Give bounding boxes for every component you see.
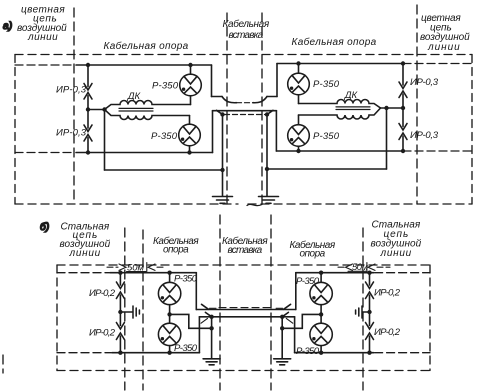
node line B at left tube column bbox=[167, 351, 171, 355]
ground symbol left (cable insert) bbox=[213, 197, 233, 204]
wire: steel line A right overhead (dashed) bbox=[375, 272, 430, 274]
svg-text:50м: 50м bbox=[127, 263, 144, 274]
cable entry mark right, crossing A bbox=[284, 304, 291, 309]
dimension 50m right bbox=[338, 263, 390, 272]
spark gap FV1 IR-0,3 upper left bbox=[84, 65, 92, 110]
node: staircase joins left earth lead bbox=[209, 326, 213, 330]
svg-text:ИР-0,3: ИР-0,3 bbox=[410, 77, 439, 88]
node on line A at tube V1 bbox=[188, 63, 192, 67]
drainage coil DK left, lower winding bbox=[105, 110, 190, 120]
drainage coil DK right, core bbox=[336, 106, 370, 108]
svg-text:опора: опора bbox=[163, 245, 189, 256]
node: middle of left spark column bbox=[86, 107, 90, 111]
node line B at right spark gap bbox=[367, 351, 371, 355]
label: cable support (bottom left) bbox=[153, 235, 199, 256]
node on line B right at spark gap bbox=[401, 149, 405, 153]
zone boundary dashed frame, section b bbox=[57, 265, 430, 371]
ground symbol bottom right bbox=[274, 359, 291, 365]
spark gap FV5 IR-0,2 upper left bbox=[116, 273, 124, 312]
svg-text:линии: линии bbox=[427, 42, 460, 53]
svg-text:линии: линии bbox=[69, 248, 101, 259]
drainage coil DK left, upper winding bbox=[105, 101, 191, 110]
ground symbol right (cable insert) bbox=[259, 197, 279, 204]
label: cable insert (bottom centre) bbox=[222, 235, 268, 256]
zone boundary vertical x=417 bbox=[416, 5, 418, 204]
spark gap FV6 IR-0,2 lower left bbox=[116, 312, 124, 353]
stray frame dashes bottom-left bbox=[2, 355, 4, 373]
wire: earth bus right y=169 bbox=[267, 168, 387, 170]
wire: bottom-left box edge A bbox=[195, 273, 197, 310]
wire: spark node to choke fork bbox=[88, 109, 105, 111]
wire: earth bus left y=170 bbox=[105, 169, 223, 171]
svg-text:Р-350: Р-350 bbox=[174, 343, 198, 354]
spark gap FV2 IR-0,3 lower left bbox=[84, 110, 92, 153]
wire: choke midpoint drop left bbox=[104, 110, 106, 171]
wire: line B left solid bbox=[76, 152, 213, 154]
wire: right choke fork to spark node bbox=[381, 107, 404, 109]
svg-text:ИР-0,3: ИР-0,3 bbox=[410, 130, 439, 141]
svg-text:Р-350: Р-350 bbox=[151, 131, 178, 142]
wire: left cable box edge B bbox=[212, 111, 214, 153]
wire: choke midpoint drop right bbox=[386, 108, 388, 169]
wire: earth lead right x=267 bbox=[266, 115, 268, 197]
node: earth bus joins left lead bbox=[220, 168, 224, 172]
wire: line B left overhead (dashed) bbox=[15, 152, 75, 154]
node line A at left spark gap bbox=[118, 271, 122, 275]
node: sheath left bottom bbox=[209, 315, 213, 319]
cable core dashed, crossing A bottom bbox=[219, 307, 273, 309]
svg-text:Р-350: Р-350 bbox=[313, 131, 340, 142]
cable entry mark right, crossing B bbox=[286, 318, 293, 323]
discharge tube V3 R-350 upper right bbox=[288, 64, 310, 104]
wire: earth lead left x=222.5 bbox=[222, 115, 224, 197]
wire: line A left solid bbox=[76, 64, 212, 66]
svg-text:Р-350: Р-350 bbox=[296, 276, 320, 287]
svg-text:линии: линии bbox=[380, 248, 412, 259]
svg-text:вставка: вставка bbox=[228, 245, 263, 256]
node line B at left spark gap bbox=[118, 351, 122, 355]
zone boundary vertical x=124.8 bbox=[124, 228, 126, 390]
node on line B at spark gap bbox=[86, 150, 90, 154]
svg-text:ИР-0,3: ИР-0,3 bbox=[56, 128, 87, 139]
earth (rotated) at bottom-right spark node bbox=[356, 306, 370, 318]
drainage coil DK right, lower winding bbox=[299, 108, 381, 119]
wire: steel line B right solid bbox=[295, 352, 374, 354]
node: choke midpoint fork bbox=[102, 107, 106, 111]
wire: steel line A left overhead (dashed) bbox=[57, 272, 109, 274]
svg-text:вставка: вставка bbox=[229, 30, 264, 41]
svg-text:а): а) bbox=[3, 21, 13, 32]
zone boundary dashed frame, section a bbox=[15, 55, 472, 205]
label: cable insert (top centre) bbox=[223, 18, 270, 41]
wire: crossing B bottom section bbox=[199, 316, 294, 318]
svg-text:Р-350: Р-350 bbox=[152, 81, 179, 92]
wire: earth lead bottom right bbox=[281, 317, 283, 358]
spark gap FV4 IR-0,3 lower right bbox=[399, 108, 407, 151]
spark gap FV3 IR-0,3 upper right bbox=[399, 64, 407, 109]
node: earth bus joins right lead bbox=[265, 167, 269, 171]
wire: line B right solid bbox=[276, 150, 403, 152]
wire: bottom-right box edge A bbox=[295, 273, 297, 310]
zone boundary vertical x=143 bbox=[142, 230, 144, 390]
zone boundary vertical x=227 bbox=[226, 13, 228, 204]
svg-text:Кабельная опора: Кабельная опора bbox=[292, 36, 377, 48]
wire: steel line A right solid bbox=[296, 272, 374, 274]
node: sheath right bottom bbox=[280, 315, 284, 319]
discharge tube V8 R-350 lower, bottom-right block bbox=[310, 323, 332, 353]
node on line A right at tube V3 bbox=[296, 61, 300, 65]
wire: earth lead bottom left bbox=[211, 317, 213, 358]
wire: steel line B left overhead (dashed) bbox=[57, 352, 111, 354]
svg-text:Р-350: Р-350 bbox=[174, 274, 198, 285]
wire: tube midpoint to earth, right staircase bbox=[282, 314, 321, 328]
node on line B at tube V2 bbox=[187, 150, 191, 154]
dimension 50m left bbox=[107, 263, 166, 272]
svg-text:Кабельная: Кабельная bbox=[223, 18, 270, 30]
ground symbol bottom left bbox=[203, 359, 220, 365]
label: steel circuit of overhead line (left) bbox=[60, 222, 111, 260]
node between tubes, bottom-right bbox=[319, 312, 323, 316]
svg-text:ИР-0,2: ИР-0,2 bbox=[374, 327, 401, 338]
node line A at left tube column bbox=[167, 271, 171, 275]
node: sheath right bbox=[265, 112, 269, 116]
label: coloured circuit of overhead line (right) bbox=[420, 13, 470, 53]
sheath bond tick right bottom bbox=[282, 312, 288, 316]
zone boundary vertical x=220 bbox=[219, 215, 221, 390]
sheath bond tick left bbox=[217, 110, 223, 114]
svg-text:Р-350: Р-350 bbox=[296, 346, 320, 357]
cable entry arc right on crossing A bbox=[253, 97, 267, 103]
cable entry mark left, crossing B bbox=[201, 318, 208, 323]
node on line A at spark gap bbox=[86, 63, 90, 67]
earth (rotated) at bottom-left spark node bbox=[120, 306, 139, 318]
wire: steel line A left solid bbox=[110, 272, 196, 274]
wire: line A right solid bbox=[277, 63, 403, 65]
svg-text:ИР-0,2: ИР-0,2 bbox=[89, 288, 116, 299]
zone boundary vertical x=271 bbox=[270, 215, 272, 390]
cable entry arc left on crossing A bbox=[222, 97, 237, 103]
spark gap FV7 IR-0,2 upper right bbox=[366, 273, 374, 312]
svg-text:Кабельная опора: Кабельная опора bbox=[104, 40, 189, 52]
node: middle of bottom-right spark column bbox=[367, 310, 371, 314]
svg-text:ДК: ДК bbox=[127, 91, 142, 102]
svg-text:ИР-0,2: ИР-0,2 bbox=[89, 328, 116, 339]
node between tubes, bottom-left bbox=[167, 312, 171, 316]
cable core dashed, crossing A bbox=[237, 102, 254, 104]
node: staircase joins right earth lead bbox=[280, 326, 284, 330]
node: middle of right spark column bbox=[401, 106, 405, 110]
wire: right cable box edge B bbox=[275, 111, 277, 151]
discharge tube V1 R-350 upper left bbox=[180, 65, 202, 105]
wire: steel line B left solid bbox=[112, 352, 199, 354]
wire: line B rise right bbox=[294, 317, 296, 353]
zone boundary vertical x=363 bbox=[362, 228, 364, 390]
wire: right cable box edge A bbox=[276, 64, 278, 97]
wire: line B right overhead (dashed) bbox=[403, 150, 471, 152]
cable entry mark left, crossing A bbox=[202, 304, 209, 309]
discharge tube V4 R-350 lower right bbox=[288, 115, 310, 151]
discharge tube V6 R-350 lower, bottom-left block bbox=[158, 323, 180, 353]
wire: line A left overhead (dashed) bbox=[15, 64, 75, 66]
wire: crossing A bottom section bbox=[196, 309, 295, 311]
wire: crossing A to right box bbox=[267, 96, 277, 98]
svg-text:50м: 50м bbox=[352, 262, 368, 273]
node on line A right at spark gap bbox=[401, 61, 405, 65]
label: cable support (bottom right) bbox=[290, 239, 336, 260]
sheath bond tick left bottom bbox=[205, 312, 211, 316]
discharge tube V7 R-350 upper, bottom-right block bbox=[310, 273, 332, 324]
cable sheath dashed bbox=[225, 114, 266, 116]
svg-text:опора: опора bbox=[300, 249, 326, 260]
node line A at right spark gap bbox=[367, 271, 371, 275]
wire: crossing B through cable insert bbox=[213, 110, 277, 112]
node: right choke midpoint bbox=[384, 106, 388, 110]
svg-text:б): б) bbox=[40, 221, 50, 233]
label: steel circuit of overhead line (right) bbox=[371, 220, 422, 260]
drainage coil DK right, upper winding bbox=[299, 100, 381, 109]
discharge tube V5 R-350 upper, bottom-left block bbox=[158, 273, 180, 324]
node on line B right at tube V4 bbox=[296, 149, 300, 153]
sheath bond tick right bbox=[267, 110, 273, 114]
svg-text:линии: линии bbox=[27, 32, 58, 43]
squiggle on bottom dashed edge bbox=[247, 204, 262, 205]
node line A at right tube column bbox=[319, 271, 323, 275]
wire: line B rise left bbox=[198, 317, 200, 353]
discharge tube V2 R-350 lower left bbox=[179, 116, 201, 153]
node: sheath left bbox=[220, 112, 224, 116]
svg-text:ИР-0,2: ИР-0,2 bbox=[374, 288, 401, 299]
svg-text:ДК: ДК bbox=[344, 90, 359, 101]
wire: steel line B right overhead (dashed) bbox=[375, 352, 430, 354]
spark gap FV8 IR-0,2 lower right bbox=[366, 312, 374, 353]
wire: tube midpoint to earth, left staircase bbox=[170, 314, 212, 328]
wire: left cable box edge A bbox=[211, 65, 213, 97]
zone boundary vertical x=74 bbox=[73, 8, 75, 204]
node line B at right tube column bbox=[319, 351, 323, 355]
drainage coil DK left, core bbox=[119, 107, 153, 109]
svg-text:ИР-0,3: ИР-0,3 bbox=[56, 85, 87, 96]
wire: line A right overhead (dashed) bbox=[403, 63, 471, 65]
zone boundary vertical x=262 bbox=[261, 13, 263, 204]
label: coloured circuit of overhead line (left) bbox=[17, 5, 67, 44]
svg-text:Р-350: Р-350 bbox=[313, 79, 340, 90]
node: middle of bottom-left spark column bbox=[118, 310, 122, 314]
wire: crossing A through cable insert bbox=[212, 96, 223, 98]
